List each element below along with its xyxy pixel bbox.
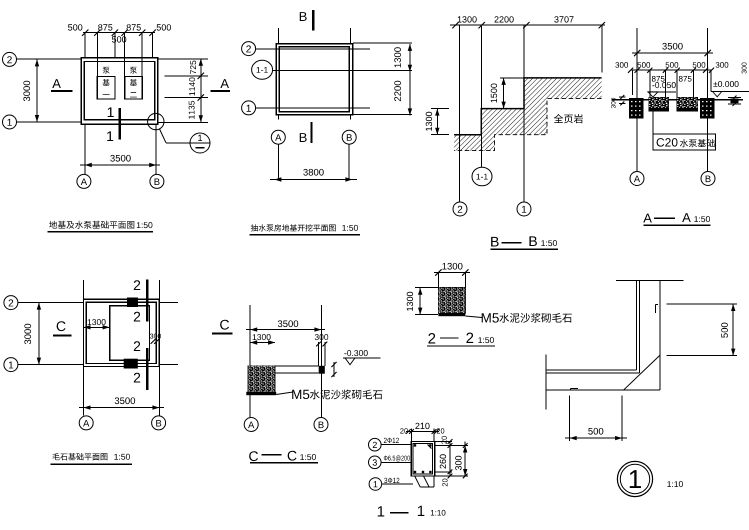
extension verticals (plan3) [83, 280, 85, 416]
dim 3000 (plan1 left) [36, 59, 38, 122]
axis circle B (plan2) [342, 130, 356, 144]
axis line 1 (plan2) [256, 107, 370, 109]
axis line 2 (plan1) [17, 58, 82, 60]
axis line 1 (plan3) [18, 364, 84, 366]
axis line 1 vertical (B-B) [523, 25, 525, 201]
dim 1300 (plan3) [84, 326, 110, 328]
caption C-C [249, 451, 258, 461]
rubble block A (A-A) [629, 98, 644, 119]
vertical wall outer face (corner) [659, 280, 661, 390]
dim 1300 left (B-B) [431, 108, 449, 110]
level -0.050 (A-A) [652, 82, 675, 88]
dim 300 (C-C) [315, 334, 329, 340]
section bubble 1-1 (plan2) [252, 60, 273, 79]
edge dim 300 (A-A right edge) [742, 62, 747, 73]
pump base 1 rect [97, 76, 115, 99]
axis circle 1 (plan3) [4, 358, 18, 372]
mini ticks 100 (C-C) [331, 362, 336, 367]
dim line top (plan1) 500/875/875/500 [83, 32, 155, 34]
dim 210 top (1-1) [411, 429, 413, 442]
rebar circle 3 (1-1) [369, 456, 382, 469]
level +0.000 (A-A) [713, 81, 738, 87]
axis A vertical (C-C) [249, 305, 251, 417]
axis line 2 vertical (B-B) [459, 25, 461, 201]
pump base 2 label [130, 67, 137, 74]
axis circle 2 (B-B) [453, 202, 467, 216]
leader 3 (1-1) [381, 461, 411, 463]
axis A vertical (A-A) [636, 28, 638, 171]
corner detail circle (plan1) [148, 113, 164, 129]
dim 500 bottom (corner) [569, 396, 571, 441]
rebar dots (1-1) [414, 444, 416, 446]
dim 3500 (plan3) [79, 407, 164, 409]
axis circle 2 (plan3) [4, 296, 18, 310]
section cut 2 top (plan3) [146, 279, 148, 321]
foundation top band (C-C) [275, 365, 319, 367]
caption 2-2 [428, 333, 435, 344]
ground line (A-A) [612, 99, 743, 101]
axis line 1 (plan1) [17, 121, 82, 123]
pump base 2 rect [125, 76, 143, 99]
top break line (corner) [616, 279, 684, 281]
dim 300 right (plan3) [150, 334, 161, 339]
leader 2 (1-1) [381, 444, 411, 446]
dim 1300 left (2-2) [415, 287, 438, 289]
section mark C right [220, 320, 229, 330]
dim 1300 (C-C) [250, 342, 275, 344]
axis circle A (plan2) [271, 130, 285, 144]
dim 500 right (corner) [666, 303, 737, 305]
axis circle B (plan3) [152, 416, 166, 430]
axis circle B (A-A) [701, 172, 715, 186]
pump base 1 label [103, 67, 110, 74]
horizontal wall inner faces (corner) [546, 369, 636, 371]
axis circle 2 (plan1) [3, 52, 17, 66]
axis circle 1 (B-B) [517, 202, 531, 216]
extension lines bottom (plan1) [84, 124, 86, 174]
section mark A right [220, 79, 229, 88]
extension verticals (A-A) [632, 70, 634, 95]
detail bubble 1 [190, 133, 210, 153]
section mark C left (plan3) [57, 321, 66, 331]
axis B vertical (C-C) [320, 305, 322, 417]
axis line 2 (plan3) [18, 302, 84, 304]
section cut 1-1 (plan1) [119, 108, 121, 139]
dim line top (B-B) [450, 24, 605, 26]
mini dim 300 right (A-A) [728, 97, 741, 99]
dim row 300/500 (A-A) [631, 69, 712, 71]
extension lines top (plan1) [84, 33, 86, 58]
axis circle A (C-C) [244, 418, 258, 432]
rubble block B (A-A) [700, 98, 715, 119]
dim 3500 (A-A) [632, 52, 713, 54]
section bubble 1-1 (B-B) [472, 167, 492, 186]
excavation hatch (B-B) [454, 78, 601, 151]
rebar circle 2 (1-1) [369, 438, 382, 451]
caption plan2 [251, 224, 336, 231]
caption 1-1 [378, 506, 385, 516]
dim 3000 (plan3) [38, 303, 40, 365]
dim 3500 (C-C) [246, 329, 325, 331]
foundation pit inner wall (plan1) [84, 62, 154, 120]
stirrup (1-1) [413, 444, 433, 475]
foundation pit outer wall (plan1) [81, 58, 158, 124]
line 1-1 vertical (B-B) [481, 25, 483, 167]
dim 1500 (B-B) [500, 77, 526, 79]
corner rebar diagonal [623, 355, 659, 390]
extension verticals (plan2) [278, 28, 280, 44]
dim 1300 top (2-2) [434, 272, 470, 274]
extension to dim (plan2) [277, 144, 279, 179]
pit outer rect (plan2) [276, 44, 353, 115]
section line 1-1 (plan2) [273, 69, 361, 71]
caption plan1 [49, 221, 134, 229]
caption B-B [491, 237, 499, 247]
right dim 725/1140/1135 (plan1) [200, 59, 202, 123]
level -0.300 (C-C) [344, 350, 367, 356]
right extension (B-B) [601, 25, 603, 72]
foundation outer rect (plan3) [84, 299, 160, 366]
vertical wall inner faces (corner) [635, 280, 637, 370]
label quanyeyan (B-B) [554, 114, 583, 123]
rubble block (2-2) [438, 288, 465, 313]
dim 300 right (1-1) [464, 442, 466, 477]
rebar hook bottom (corner) [571, 388, 578, 390]
left break line (corner) [545, 355, 547, 410]
dim 20/260/20 right (1-1) [435, 445, 468, 447]
axis line 2 (plan2) [256, 48, 370, 50]
axis circle 1 (plan1) [3, 115, 17, 129]
label M5 leader (C-C) [276, 392, 293, 395]
axis circle B (plan1) [150, 174, 164, 188]
leader 1 (1-1) [382, 483, 413, 485]
section cut 2 bottom (plan3) [146, 348, 148, 390]
detail leader (plan1) [159, 129, 166, 143]
section mark B bottom (plan2) [300, 133, 307, 142]
caption A-A [643, 214, 652, 223]
detail circle 1 (corner) [617, 461, 652, 496]
dim 3500 (plan1 bottom) [80, 164, 160, 166]
section mark A left [52, 79, 61, 88]
axis circle 1 (plan2) [242, 101, 256, 115]
label C20 box (A-A) [652, 111, 654, 134]
pit inner rect (plan2) [279, 47, 349, 112]
caption plan3 [52, 453, 107, 460]
right dim 1300/2200 (plan2) [409, 44, 411, 116]
break lines (1-1) [415, 476, 421, 487]
foundation outer rect inner line (plan3) [86, 302, 156, 363]
mini dim 300 left (A-A) [619, 96, 626, 98]
label M5 (2-2) [482, 313, 499, 322]
section mark B top (plan2) [300, 12, 307, 21]
concrete block 1 (A-A) [649, 98, 669, 112]
axis circle A (plan3) [79, 416, 93, 430]
axis B vertical (A-A) [707, 28, 709, 171]
concrete block 2 (A-A) [677, 98, 698, 112]
rebar circle 1 (1-1) [369, 478, 382, 491]
rebar hook right (corner) [655, 304, 657, 313]
horizontal wall outer face (corner) [546, 389, 660, 391]
axis circle 2 (plan2) [242, 42, 256, 56]
dim 3800 (plan2) [270, 179, 357, 181]
axis circle A (A-A) [630, 172, 644, 186]
beam outline (1-1) [411, 442, 435, 477]
axis circle B (C-C) [314, 418, 328, 432]
rubble block (C-C) [248, 366, 275, 392]
black block at B (C-C) [319, 366, 325, 374]
foundation inner rect (plan3) [110, 306, 150, 360]
label M5 (C-C) [292, 390, 309, 399]
label M5 leader (2-2) [465, 316, 482, 318]
axis circle A (plan1) [77, 174, 91, 188]
